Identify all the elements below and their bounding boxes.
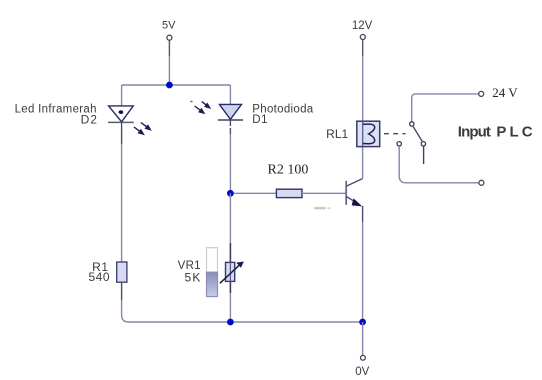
wire right drop [229, 85, 231, 104]
node top junction [166, 82, 173, 89]
wire pot drop [229, 193, 231, 243]
wire top rail [122, 84, 231, 86]
svg-text:R2 100: R2 100 [268, 162, 309, 177]
switch pivot contact [410, 122, 414, 126]
svg-text:24 V: 24 V [492, 85, 518, 100]
svg-text:D1: D1 [252, 114, 268, 126]
terminal 5V [167, 35, 172, 40]
node bottom right junction [359, 319, 366, 326]
LED D2 emission arrow 2 [134, 127, 145, 135]
svg-text:Input: Input [458, 123, 491, 140]
LED D2 emission arrow 1 [141, 123, 152, 131]
wire collector up [362, 147, 364, 179]
photodiode D1 [218, 104, 243, 120]
wire emitter down [362, 206, 364, 222]
svg-text:0V: 0V [355, 366, 369, 378]
switch blade [413, 126, 422, 141]
wire 0V drop [362, 322, 364, 355]
node bottom mid junction [227, 319, 234, 326]
svg-text:5K: 5K [185, 271, 202, 285]
wire left drop [121, 85, 123, 106]
terminal 12V [360, 35, 365, 40]
wire pot to bottom rail [229, 293, 231, 322]
transistor Q1 [346, 179, 362, 207]
svg-text:PLC: PLC [496, 123, 535, 140]
switch contact left [397, 142, 401, 146]
LED D2 [108, 106, 134, 123]
mechanical link dashes [384, 133, 406, 135]
wire to lower terminal [399, 146, 478, 183]
switch common wire to 24V [412, 94, 479, 122]
D1 incident arrow 2 [195, 106, 206, 114]
wire bottom rail [129, 321, 363, 323]
terminal lower PLC [479, 180, 484, 185]
wire 5V down [168, 40, 170, 56]
wire D1 to node [229, 120, 231, 126]
svg-text:540: 540 [88, 270, 110, 284]
wire 12V down [362, 40, 364, 56]
wire contact stem [423, 146, 425, 164]
terminal 24V [479, 91, 484, 96]
svg-text:5V: 5V [162, 19, 176, 31]
wire D2 to R1 [121, 122, 123, 144]
svg-text:D2: D2 [81, 113, 98, 127]
D1 incident dash [190, 101, 192, 103]
svg-text:RL1: RL1 [326, 127, 348, 141]
terminal 0V [361, 355, 366, 360]
wire R2 to base [302, 192, 346, 194]
switch contact right [421, 142, 425, 146]
resistor R1 [117, 262, 127, 282]
erased label smudge [314, 207, 326, 209]
VR1 slider indicator [207, 248, 218, 297]
potentiometer VR1 [220, 243, 244, 293]
wire R1 to bottom rail [121, 282, 123, 300]
node base junction [227, 190, 234, 197]
resistor R2 [276, 189, 302, 197]
svg-text:12V: 12V [352, 20, 373, 32]
wire node to R2 [230, 192, 276, 194]
D1 incident arrow 1 [202, 102, 211, 109]
relay RL1 [357, 121, 380, 146]
